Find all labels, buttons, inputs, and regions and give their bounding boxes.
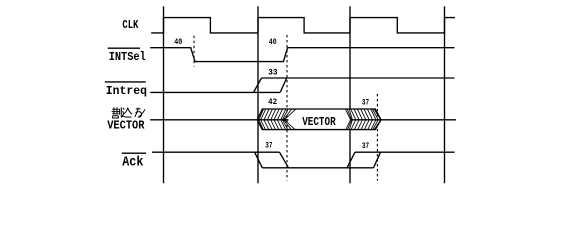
svg-text:37: 37 [362,98,369,107]
Ack rise slant 1 (min) [347,152,355,168]
label Ack overline [122,152,146,154]
svg-text:Ack: Ack [122,155,143,171]
Ack waveform high edge left [152,151,280,153]
clock grid line t2 [257,6,259,183]
Ack fall slant 1 (min) [255,152,263,168]
INTSel waveform [150,48,454,62]
clock grid line t3 (under bus) [349,6,351,183]
dashed marker second clock edge transitions [286,35,288,181]
svg-text:INTSel: INTSel [109,50,146,64]
bus line left [150,119,257,121]
Intreq high edge [262,77,455,79]
label kanji 割 (interrupt) [112,107,122,118]
dashed marker t=40 first INTSel transition [193,36,195,67]
clock grid line t4 [444,6,446,183]
svg-text:VECTOR: VECTOR [107,119,145,133]
Intreq rise slant 1 (min) [254,78,262,92]
svg-text:33: 33 [268,68,277,77]
svg-text:VECTOR: VECTOR [302,115,336,129]
Ack low edge [262,167,373,169]
clock grid line t1 [163,6,165,183]
bus bottom edge [257,120,381,130]
Intreq rise slant 2 (max) [280,78,287,92]
Ack fall slant 2 (max) [280,152,289,168]
Ack high edge right [355,151,455,153]
svg-text:CLK: CLK [122,18,139,32]
bus mid line band2 [350,119,381,121]
label kanji み [135,108,145,118]
svg-text:40: 40 [174,38,182,47]
bus top edge [257,109,381,120]
Intreq waveform low edge [150,91,280,93]
label INTSel overline [108,47,140,49]
CLK waveform [151,18,455,33]
bus hatch band 1 chevrons [257,109,295,130]
svg-text:37: 37 [362,142,369,151]
bus VECTOR valid-region white fill [257,109,381,130]
dashed marker third clock edge transitions [376,94,378,181]
bus mid line band1 [257,119,288,121]
svg-text:42: 42 [268,98,277,107]
label Intreq overline [105,81,146,83]
svg-text:40: 40 [269,38,277,47]
bus hatch band 2 chevrons [346,109,381,130]
label kanji 込 [122,108,132,118]
svg-text:Intreq: Intreq [106,84,147,98]
svg-text:37: 37 [265,142,272,151]
Ack rise slant 2 (max) [374,152,381,168]
bus line right [381,119,456,121]
